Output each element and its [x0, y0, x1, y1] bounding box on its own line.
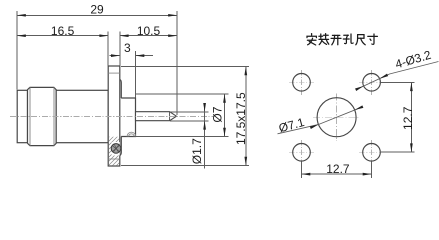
flange boss face: [120, 80, 122, 98]
svg-text:10.5: 10.5: [137, 24, 161, 38]
connector body: [56, 90, 108, 142]
zhuang: [319, 34, 329, 45]
dim 10.5: [120, 24, 177, 66]
center hole dia 7.1: [313, 94, 360, 142]
svg-text:29: 29: [90, 2, 104, 16]
center pin: [136, 112, 177, 121]
mounting hole top-right: [359, 70, 384, 95]
insulator bushing: [121, 98, 135, 137]
mounting hole bottom-right: [359, 140, 384, 165]
dim dia 7: [136, 94, 229, 137]
chi: [356, 35, 365, 45]
dim 16.5: [17, 24, 108, 66]
svg-text:Ø7.1: Ø7.1: [277, 115, 306, 135]
cun: [368, 34, 378, 44]
mounting hole bottom-left: [289, 140, 314, 165]
dim 12.7 horizontal: [302, 162, 372, 178]
flange section hatching: [100, 111, 135, 198]
leader dia 7.1: [277, 105, 363, 135]
dim 29: [17, 2, 177, 115]
dim 3: [110, 41, 154, 97]
insulator radius arcs: [127, 132, 136, 136]
square flange: [108, 66, 120, 166]
svg-text:12.7: 12.7: [326, 162, 350, 176]
svg-text:3: 3: [124, 41, 131, 55]
dim 12.7 vertical: [381, 82, 415, 152]
svg-text:17.5x17.5: 17.5x17.5: [234, 92, 248, 145]
title mounting hole size (CJK drawn strokes): [307, 34, 377, 45]
svg-text:Ø1.7: Ø1.7: [190, 138, 204, 164]
dim dia 1.7: [170, 103, 209, 169]
svg-text:Ø7: Ø7: [210, 106, 224, 122]
svg-text:12.7: 12.7: [401, 106, 415, 130]
centerline: [10, 116, 213, 118]
kong: [343, 34, 353, 44]
kai: [331, 35, 341, 44]
o-ring seal (cross-section): [111, 144, 121, 154]
o-ring groove: [112, 142, 120, 156]
mounting hole top-left: [289, 70, 314, 95]
coupling nut: [28, 87, 57, 145]
leader 4x dia 3.2: [355, 48, 438, 91]
svg-text:16.5: 16.5: [51, 24, 75, 38]
an: [307, 34, 316, 45]
dim 17.5x17.5: [121, 67, 249, 166]
connector rear barrel: [17, 90, 27, 142]
